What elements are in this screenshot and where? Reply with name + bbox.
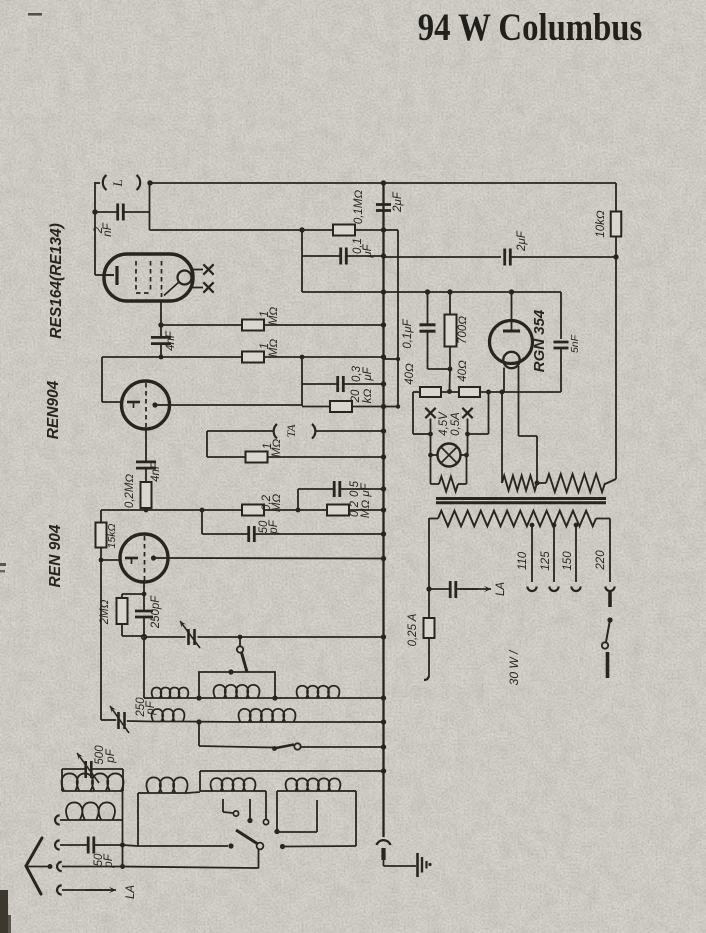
node bus anode REN904 I [381,404,386,409]
trimmer capacitor 250pF tuning [101,719,116,721]
capacitor 5nF [560,292,562,339]
node RGN anode [509,289,514,294]
node bus TA [381,428,386,433]
heater line 40 Ohm resistors [413,391,420,393]
svg-text:220: 220 [595,550,607,571]
svg-text:125: 125 [540,551,552,571]
node bus row1 [381,695,386,700]
node cathode RC [142,592,147,597]
resistor 2MOhm [122,593,144,595]
antenna symbol [26,838,42,866]
terminal 150 [571,586,580,591]
capacitor 50pF [201,510,203,534]
coil row1 line [144,697,152,699]
node 700 top [447,289,452,294]
svg-text:40Ω: 40Ω [457,360,469,382]
svg-text:MΩ: MΩ [268,307,280,326]
wire second bus vertical [397,230,399,406]
node bus2 low [396,404,400,408]
capacitor 250pF [143,594,145,611]
tube REN904 I envelope [122,381,170,429]
wire line 637 [144,636,186,638]
wire heater left drop [412,392,414,434]
wire TA left down [207,430,273,432]
node tap loop [228,669,233,674]
wire HT to 2uF II [384,256,502,258]
wire stud line 846 [138,845,228,847]
coil L1a [152,687,189,698]
connector X lamp right [462,408,472,418]
resistor 700Ohm [449,292,451,314]
capacitor 0,1uF [339,248,342,265]
REN904 II grid bar [125,557,138,560]
transformer core [436,497,606,500]
node cathode line637 [142,635,147,640]
wire 15k branch [100,510,102,522]
wire jog to second bus [384,229,399,231]
resistor 1MOhm I [242,320,264,331]
node bus 1M II [381,354,386,359]
wire down to row3 [199,771,201,791]
node ant 50pF [120,843,125,848]
svg-text:5nF: 5nF [569,334,581,353]
node 4nF low [159,355,164,360]
ground symbol [416,853,419,877]
coil L2b [239,709,296,722]
svg-text:700Ω: 700Ω [457,316,469,344]
resistor 0,2MOhm I [145,468,147,482]
wire grid feed REN904 I [101,357,103,402]
svg-text:150: 150 [562,551,574,571]
wire RES164 anode down [160,301,162,325]
wire anode REN904 II to bus [167,557,384,560]
svg-text:TA: TA [284,424,298,438]
resistor 0,2MOhm II [242,505,264,516]
node bus row2 [381,719,386,724]
fuse 0,25A [428,589,430,618]
node lamp right [464,453,469,458]
node bus 0,5uF [381,486,386,491]
svg-text:kΩ: kΩ [362,389,374,404]
resistor 10kOhm [611,212,622,237]
coil L2a [152,709,185,721]
wire L left down [95,182,100,184]
capacitor 0,1uF III [427,292,429,324]
svg-text:0,2MΩ: 0,2MΩ [124,474,136,509]
antenna trimmer 500pF box [62,768,86,770]
node filament center [447,389,452,394]
resistor 40Ohm a [420,387,441,397]
wire primary left down [428,518,430,589]
wire to filament center [449,369,452,390]
REN904 I grid bar [127,401,140,404]
node rail/L [147,180,152,185]
wire anode REN904 I [169,404,302,406]
svg-text:4nF: 4nF [150,461,162,482]
node row1 a [196,695,201,700]
transformer secondary winding right [537,482,546,484]
node lamp left tee [428,432,433,437]
capacitor LA coupling [429,588,450,590]
svg-text:REN 904: REN 904 [47,524,64,587]
node row1 b [272,695,277,700]
capacitor 2uF on bus [376,203,391,206]
wire cathode REN904 II [143,580,145,594]
svg-text:μF: μF [362,243,374,258]
capacitor 0,5uF [297,489,299,510]
svg-text:2μF: 2μF [392,191,404,213]
transformer primary winding [429,518,438,520]
coil ant I2 [55,815,60,824]
terminal 110 [527,586,536,591]
svg-text:MΩ: MΩ [271,439,283,458]
svg-text:0,25 A: 0,25 A [407,613,419,646]
wire jog mid [384,358,399,360]
transformer secondary winding left [502,476,537,491]
node bus 510 [381,507,386,512]
capacitor 0,3uF [336,376,339,392]
wire grid branch down [100,560,102,720]
wire HT feed line 292 [302,291,384,293]
wire tap loop over L1b [199,672,275,698]
wire line 510 [101,509,146,511]
wire 50pF line to coil I [123,845,139,846]
wire bus to bus2 low [384,406,399,408]
svg-text:40Ω: 40Ω [404,363,416,385]
svg-text:10kΩ: 10kΩ [595,210,607,238]
node bus 637 [381,634,386,639]
node line510 b [296,508,301,513]
coil L1b [214,685,260,698]
node RGN fil left [500,390,505,395]
resistor 40Ohm b [459,387,480,397]
REN904 I dashed electrode [145,383,147,427]
node RC join [448,367,453,372]
node bus 1M III [381,454,386,459]
resistor 1MOhm II [242,352,264,363]
node bus grid [381,227,386,232]
node line2 branch [300,355,305,360]
capacitor 2nF [116,204,119,221]
resistor 1MOhm III [207,456,246,458]
capacitor 50pF antenna [55,840,60,849]
node 2nF left [92,209,97,214]
wire grid REN904 II [101,559,120,561]
jack TA arcs [274,424,277,439]
terminal 220 [605,586,614,591]
node bus 1M I [381,322,386,327]
arrow LA mains antenna [460,588,491,590]
wire antenna line to switch [123,867,259,869]
node row2 a [196,719,201,724]
svg-text:nF: nF [102,222,114,236]
resistor 20kOhm [330,401,352,412]
node 0,2M line510 [144,508,149,513]
node bus 0,1uF [381,253,386,258]
node 10k/2uF line [613,254,618,259]
svg-text:0,1μF: 0,1μF [402,318,414,348]
node bus 50pF [381,531,386,536]
tube RES164 envelope [104,254,193,301]
wire branch down to 0,1uF [301,230,303,292]
REN904 I anode [152,402,157,407]
scan artifacts [0,890,8,933]
mains switch [608,592,612,607]
plug at bus bottom [377,840,391,845]
wire right edge down to 10k [615,183,617,212]
tube RGN354 envelope [490,321,533,364]
wire anode to 1M [161,324,243,326]
node grid line branch [299,227,304,232]
svg-text:0,1MΩ: 0,1MΩ [353,190,365,225]
capacitor 4nF I [151,336,171,339]
transformer taps [530,523,535,528]
resistor 0,1MOhm grid [333,225,355,236]
wire ant common vertical [122,791,124,867]
wire 4nF node line [102,356,161,358]
node secondary tap [535,481,540,486]
node switch 637 [238,635,243,640]
switch wave band upper [239,637,241,646]
node bus switch row2 [381,744,386,749]
node LA/fuse [426,586,431,591]
svg-text:REN904: REN904 [45,380,62,439]
RES164 filament loop [178,271,192,285]
switch row2 [198,722,200,746]
dial lamp [438,444,461,467]
connector X upper [203,264,213,274]
svg-text:LA: LA [495,582,507,596]
wire RES164 grid feed [94,212,96,275]
node lamp right tee [465,432,470,437]
wire branch 0,3uF/20k [301,357,303,406]
svg-text:RES164(RE134): RES164(RE134) [48,223,65,338]
RES164 filament leads to X [191,269,203,271]
svg-text:110: 110 [517,551,529,570]
node bus top [381,180,386,185]
wire heater right drop [488,392,490,434]
wire 5nF to filament [502,391,561,393]
lamp shunt resistor loop [430,455,432,484]
svg-text:MΩ: MΩ [360,500,372,519]
wire 10k to node [615,236,617,258]
RGN354 anode [511,292,513,331]
svg-text:20: 20 [350,389,362,403]
capacitor 2uF II [503,249,506,266]
coil row3 J [200,790,211,792]
coil row3 left I [137,793,139,846]
node antenna [48,864,53,869]
node bus anode II [381,556,386,561]
svg-text:0,5A: 0,5A [450,412,462,436]
RES164 dashed grids [136,261,162,297]
node switch row3 [228,843,233,848]
wire TA right to bus [316,430,384,432]
svg-text:pF: pF [268,519,280,534]
svg-text:2μF: 2μF [516,230,528,252]
connector X lamp left [425,408,435,418]
node heater right [486,390,491,395]
svg-text:LA: LA [125,885,137,899]
RGN354 filament loop [503,352,519,368]
wire K left stud [276,791,278,829]
svg-text:15kΩ: 15kΩ [106,524,118,549]
coil ant G [62,773,124,791]
node line510 tap [200,508,205,513]
svg-text:μF: μF [360,482,372,497]
wire right edge to transformer [615,257,617,479]
svg-text:RGN 354: RGN 354 [531,309,548,372]
svg-text:4,5V: 4,5V [438,411,450,436]
wire rail down to grid line [149,183,151,230]
node lamp left [428,453,433,458]
node 0,1uF III top [425,289,430,294]
top rail wire [150,182,616,184]
antenna coil L arcs [103,175,107,190]
REN904 II anode [151,555,156,560]
node anode RES164 [158,322,163,327]
wire RGN filament leads [503,368,505,393]
node bus 292 [381,289,386,294]
RES164 grid electrode [115,266,118,285]
node ant main [120,864,125,869]
switch row3 lever [257,843,264,850]
resistor 0,2MOhm III [327,505,349,516]
REN904 II dashed electrode [144,536,146,580]
svg-text:pF: pF [105,748,117,763]
svg-text:30 W /: 30 W / [507,649,521,685]
jack LA bottom [57,885,62,894]
switch studs J [222,799,224,812]
trimmer capacitor series [187,629,190,645]
coil row3 K [277,790,286,792]
wire cathode down to coil row1 [143,637,145,698]
wire K right down [355,791,357,846]
terminal 125 [549,586,558,591]
node grid REN904 II [99,558,104,563]
svg-text:250pF: 250pF [150,595,162,630]
main HT bus [382,183,384,837]
svg-text:MΩ: MΩ [268,339,280,358]
resistor 15kOhm [96,523,107,548]
node bus 0,3uF [381,381,386,386]
connector X lower [203,282,213,292]
wire grid line to 0,1M [150,229,334,231]
wire K stud line [285,845,356,848]
wire line 771 [200,770,384,772]
tube REN904 II envelope [120,534,168,582]
node jog [396,357,400,361]
coil L1c [297,686,340,698]
wire K tap [277,831,317,833]
svg-text:L: L [110,179,125,187]
wire switch down to antenna line [258,849,260,869]
svg-text:μF: μF [362,366,374,381]
svg-text:4nF: 4nF [165,330,177,351]
svg-text:MΩ: MΩ [271,494,283,513]
node bus 771 [381,768,386,773]
capacitor 4nF II [145,429,147,461]
